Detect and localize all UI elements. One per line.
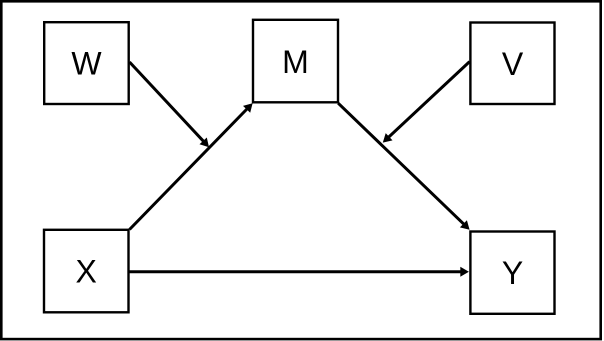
box W <box>44 22 129 104</box>
arrowhead at Y (c' path) <box>460 267 469 277</box>
box V <box>470 23 554 105</box>
arrowhead at M (a path) <box>243 103 253 113</box>
svg-text:M: M <box>282 44 309 80</box>
wire X to M <box>130 108 249 230</box>
svg-text:W: W <box>71 46 102 82</box>
arrowhead of W arrow <box>200 138 210 148</box>
svg-text:V: V <box>502 46 524 82</box>
wire V to b-path (moderation arrow) <box>387 62 469 139</box>
svg-text:Y: Y <box>502 255 523 291</box>
box Y <box>470 232 554 314</box>
wire M to Y <box>338 103 465 225</box>
arrowhead of V arrow <box>383 133 393 143</box>
box M <box>253 20 338 103</box>
wire X to Y (direct path) <box>130 270 463 273</box>
box X <box>44 230 129 312</box>
arrowhead at Y (b path) <box>460 220 470 230</box>
svg-text:X: X <box>76 254 97 290</box>
wire W to a-path (moderation arrow) <box>130 62 205 143</box>
